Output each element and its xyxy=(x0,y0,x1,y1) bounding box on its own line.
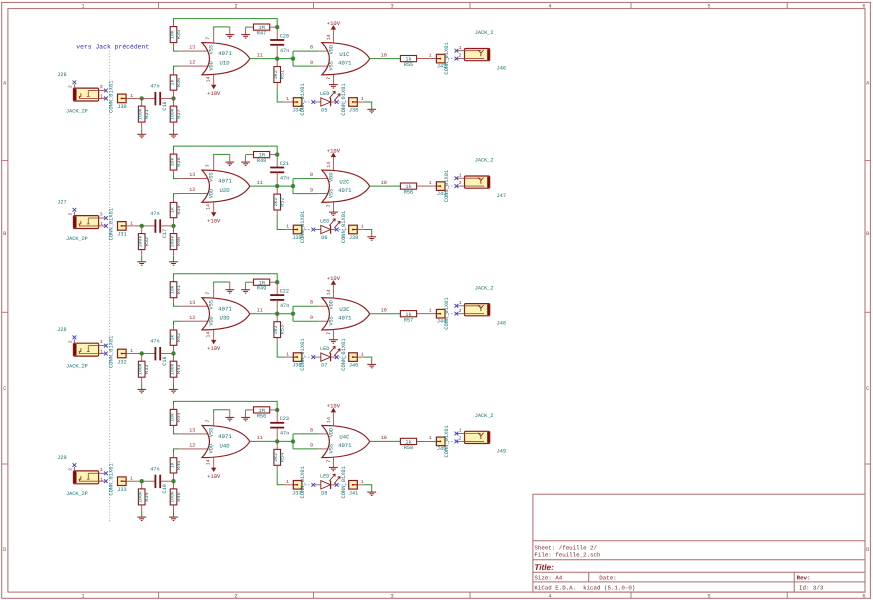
resistor R46 100k xyxy=(169,481,181,517)
svg-text:2: 2 xyxy=(67,468,73,471)
svg-text:D8: D8 xyxy=(321,490,327,496)
ground at gate D pin7 xyxy=(225,410,234,421)
ground after LED connector xyxy=(367,109,376,112)
svg-text:VSS: VSS xyxy=(208,173,214,182)
wire gate D output xyxy=(250,185,293,187)
svg-text:J29: J29 xyxy=(57,455,66,461)
svg-text:11: 11 xyxy=(257,180,263,186)
node output junction 1 xyxy=(275,184,279,188)
wire gate C output xyxy=(370,185,401,187)
svg-text:100k: 100k xyxy=(169,108,175,120)
LED D5 xyxy=(315,91,341,114)
svg-text:VSS: VSS xyxy=(208,300,214,309)
wire node input junction xyxy=(140,351,144,355)
svg-text:C21: C21 xyxy=(280,161,289,167)
svg-text:1: 1 xyxy=(130,93,133,99)
ground left of 1M resistor xyxy=(241,282,250,293)
svg-text:CONN_01X01: CONN_01X01 xyxy=(341,338,347,370)
ground after LED connector xyxy=(367,364,376,367)
svg-text:+10V: +10V xyxy=(207,345,221,352)
wire to LED branch xyxy=(277,87,283,102)
svg-text:11: 11 xyxy=(257,52,263,58)
svg-text:4: 4 xyxy=(548,593,551,599)
svg-text:5: 5 xyxy=(707,593,710,599)
svg-text:Title:: Title: xyxy=(534,563,554,572)
svg-text:47n: 47n xyxy=(280,175,289,181)
resistor R56 1k xyxy=(400,180,436,196)
svg-text:CONN_01X01: CONN_01X01 xyxy=(300,338,306,370)
svg-text:JACK_2: JACK_2 xyxy=(475,158,494,164)
svg-text:11: 11 xyxy=(257,308,263,314)
svg-text:1: 1 xyxy=(130,348,133,354)
svg-text:100k: 100k xyxy=(138,108,144,120)
capacitor C17 47n xyxy=(142,211,174,238)
svg-text:13: 13 xyxy=(189,45,195,51)
svg-text:LED: LED xyxy=(320,218,329,224)
svg-text:100k: 100k xyxy=(169,236,175,248)
svg-text:JACK_2: JACK_2 xyxy=(475,413,494,419)
svg-text:13: 13 xyxy=(189,172,195,178)
connector J36 (CONN_01X01) xyxy=(284,338,307,370)
svg-text:5: 5 xyxy=(707,4,710,10)
svg-text:10k: 10k xyxy=(169,413,175,422)
svg-text:14: 14 xyxy=(205,332,211,338)
svg-text:CONN_01X01: CONN_01X01 xyxy=(109,208,115,240)
svg-text:10: 10 xyxy=(381,308,387,314)
dashed link LED to connector xyxy=(335,100,339,104)
svg-text:J48: J48 xyxy=(497,321,506,327)
svg-text:VDD: VDD xyxy=(328,173,334,182)
svg-text:7: 7 xyxy=(205,164,211,167)
wire to pin 12 xyxy=(179,65,208,67)
resistor R44 10k xyxy=(169,405,181,434)
jack J47 (JACK_2) xyxy=(455,158,506,199)
ground at gate D pin7 xyxy=(225,27,234,38)
capacitor C20 47n xyxy=(270,27,289,58)
svg-text:R42: R42 xyxy=(176,333,182,342)
node output junction 2 xyxy=(291,184,295,188)
svg-text:R32: R32 xyxy=(144,237,150,246)
ground at gate C pin7 xyxy=(329,340,338,343)
op-gate U3C 4071 xyxy=(322,275,370,340)
svg-text:6: 6 xyxy=(862,593,865,599)
svg-text:4071: 4071 xyxy=(338,187,352,194)
resistor R50 1M xyxy=(250,407,277,420)
wire to pin 13 xyxy=(179,305,208,307)
svg-text:1k: 1k xyxy=(169,207,175,213)
wire branches to gate C inputs xyxy=(293,45,328,67)
connector J44 (CONN_01X01) xyxy=(436,297,454,329)
svg-text:10k: 10k xyxy=(169,158,175,167)
svg-text:JACK_2: JACK_2 xyxy=(475,30,494,36)
connector J37 (CONN_01X01) xyxy=(284,466,307,498)
resistor R42 1k xyxy=(169,321,181,353)
capacitor C22 47n xyxy=(270,282,289,314)
connector J42 (CONN_01X01) xyxy=(436,42,454,74)
svg-text:1: 1 xyxy=(100,221,103,227)
svg-text:8: 8 xyxy=(310,45,313,51)
connector J31 (CONN_01X01) xyxy=(109,208,142,240)
svg-text:13: 13 xyxy=(189,428,195,434)
svg-text:R40: R40 xyxy=(176,237,182,246)
resistor R58 1k xyxy=(400,435,436,451)
jack J49 (JACK_2) xyxy=(455,413,506,454)
connector J40 (CONN_01X01) xyxy=(341,338,372,370)
svg-text:2: 2 xyxy=(67,340,73,343)
dotted boundary line xyxy=(109,51,111,523)
svg-text:CONN_01X01: CONN_01X01 xyxy=(300,211,306,243)
svg-text:1: 1 xyxy=(81,593,84,599)
dashed link LED to connector xyxy=(335,228,339,232)
svg-text:VDD: VDD xyxy=(208,61,214,70)
resistor R55 1k xyxy=(400,52,436,68)
wire to pin 13 xyxy=(179,433,208,435)
ground at gate C pin7 xyxy=(329,467,338,470)
svg-text:8: 8 xyxy=(310,427,313,433)
resistor R36 1k xyxy=(169,66,181,98)
svg-text:J46: J46 xyxy=(497,66,506,72)
svg-text:12: 12 xyxy=(189,443,195,449)
svg-text:J38: J38 xyxy=(349,108,358,114)
svg-text:U3C: U3C xyxy=(339,306,350,313)
resistor R47 1M xyxy=(250,24,277,37)
svg-text:7: 7 xyxy=(326,77,332,80)
svg-text:VDD: VDD xyxy=(208,316,214,325)
ground under right 100k xyxy=(169,134,178,137)
svg-text:47n: 47n xyxy=(150,466,159,472)
resistor R40 100k xyxy=(169,226,181,262)
svg-text:C18: C18 xyxy=(162,356,168,365)
svg-text:4071: 4071 xyxy=(338,442,352,449)
svg-text:R54: R54 xyxy=(280,453,286,462)
svg-text:4071: 4071 xyxy=(218,305,232,312)
resistor R39 1k xyxy=(169,194,181,226)
svg-text:2k2: 2k2 xyxy=(273,198,279,207)
LED D7 xyxy=(315,346,341,369)
connector J38 (CONN_01X01) xyxy=(341,83,372,115)
capacitor C19 47n xyxy=(142,466,174,493)
ground under left 100k xyxy=(137,134,146,137)
svg-text:R48: R48 xyxy=(257,158,266,164)
svg-text:J47: J47 xyxy=(497,193,506,199)
svg-text:4071: 4071 xyxy=(338,59,352,66)
svg-text:JACK_2P: JACK_2P xyxy=(66,364,88,370)
op-gate U3D 4071 xyxy=(202,282,250,352)
wire to pin 12 xyxy=(179,320,208,322)
svg-text:2: 2 xyxy=(459,436,462,442)
svg-text:VSS: VSS xyxy=(208,45,214,54)
svg-text:100k: 100k xyxy=(169,363,175,375)
svg-text:R56: R56 xyxy=(404,190,413,196)
feedback wire (top) xyxy=(174,274,278,283)
svg-text:R46: R46 xyxy=(176,492,182,501)
resistor R48 1M xyxy=(250,152,277,165)
svg-text:R37: R37 xyxy=(176,109,182,118)
svg-text:R47: R47 xyxy=(257,31,266,37)
wire branches to gate C inputs xyxy=(293,427,328,449)
svg-text:12: 12 xyxy=(189,315,195,321)
svg-text:4: 4 xyxy=(548,4,551,10)
frame row letters xyxy=(3,81,870,554)
svg-text:VSS: VSS xyxy=(208,428,214,437)
svg-text:1: 1 xyxy=(429,52,432,58)
wire to LED branch xyxy=(277,342,283,357)
svg-text:J28: J28 xyxy=(57,327,66,333)
wire node input junction xyxy=(140,96,144,100)
svg-text:1: 1 xyxy=(100,94,103,100)
svg-text:1: 1 xyxy=(429,435,432,441)
node output junction 2 xyxy=(291,439,295,443)
svg-text:U4C: U4C xyxy=(339,434,350,441)
svg-text:J39: J39 xyxy=(349,235,358,241)
svg-text:U2D: U2D xyxy=(220,187,231,194)
svg-text:3: 3 xyxy=(100,212,103,218)
svg-text:47n: 47n xyxy=(150,339,159,345)
svg-text:2: 2 xyxy=(459,53,462,59)
capacitor C23 47n xyxy=(270,410,289,442)
resistor R49 1M xyxy=(250,279,277,292)
ground left of 1M resistor xyxy=(241,410,250,421)
svg-text:vers Jack précédent: vers Jack précédent xyxy=(76,43,149,50)
svg-text:C19: C19 xyxy=(162,484,168,493)
svg-text:U2C: U2C xyxy=(339,178,350,185)
svg-text:6: 6 xyxy=(862,4,865,10)
node output junction 2 xyxy=(291,312,295,316)
svg-text:VDD: VDD xyxy=(328,45,334,54)
svg-text:47n: 47n xyxy=(280,303,289,309)
svg-text:14: 14 xyxy=(326,34,332,40)
svg-text:CONN_01X01: CONN_01X01 xyxy=(341,466,347,498)
svg-text:R50: R50 xyxy=(257,413,266,419)
svg-text:+10V: +10V xyxy=(207,90,221,97)
ground after LED connector xyxy=(367,492,376,495)
node output junction 1 xyxy=(275,56,279,60)
svg-text:1: 1 xyxy=(130,220,133,226)
svg-text:1: 1 xyxy=(459,172,462,178)
dashed link LED to connector xyxy=(335,355,339,359)
resistor R38 10k xyxy=(169,150,181,179)
wire to LED branch xyxy=(277,215,283,230)
ground under left 100k xyxy=(137,262,146,265)
dashed link LED to connector xyxy=(335,483,339,487)
svg-text:File: feuille_2.sch: File: feuille_2.sch xyxy=(534,552,600,559)
svg-text:VSS: VSS xyxy=(328,444,334,453)
connector J45 (CONN_01X01) xyxy=(436,425,454,457)
svg-text:2: 2 xyxy=(234,593,237,599)
svg-text:12: 12 xyxy=(189,60,195,66)
svg-text:100k: 100k xyxy=(138,236,144,248)
ground under left 100k xyxy=(137,517,146,520)
resistor R37 100k xyxy=(169,98,181,134)
svg-text:1: 1 xyxy=(361,96,364,102)
connector J39 (CONN_01X01) xyxy=(341,211,372,243)
svg-text:+10V: +10V xyxy=(327,275,341,282)
wire to pin 12 xyxy=(179,193,208,195)
svg-text:D: D xyxy=(866,547,869,553)
wire gate D output xyxy=(250,313,293,315)
LED D8 xyxy=(315,474,341,497)
svg-text:2: 2 xyxy=(67,212,73,215)
wire gate C output xyxy=(370,313,401,315)
svg-text:100k: 100k xyxy=(169,491,175,503)
dashed link to LED xyxy=(302,484,311,486)
svg-text:C: C xyxy=(3,386,6,392)
svg-text:VSS: VSS xyxy=(328,189,334,198)
ground left of 1M resistor xyxy=(241,155,250,166)
svg-text:1: 1 xyxy=(459,428,462,434)
svg-text:VSS: VSS xyxy=(328,61,334,70)
svg-text:J32: J32 xyxy=(117,359,126,365)
dashed link to LED xyxy=(302,101,311,103)
svg-text:R58: R58 xyxy=(404,445,413,451)
svg-text:Date:: Date: xyxy=(599,575,616,582)
ground after LED connector xyxy=(367,237,376,240)
svg-text:J49: J49 xyxy=(497,448,506,454)
svg-text:R38: R38 xyxy=(176,157,182,166)
wire branches to gate C inputs xyxy=(293,172,328,194)
capacitor C21 47n xyxy=(270,155,289,187)
svg-text:R45: R45 xyxy=(176,461,182,470)
ground at gate C pin7 xyxy=(329,85,338,88)
svg-text:1: 1 xyxy=(81,4,84,10)
node output junction 1 xyxy=(275,312,279,316)
svg-text:R52: R52 xyxy=(280,197,286,206)
svg-text:12: 12 xyxy=(189,187,195,193)
title block texts xyxy=(534,545,823,592)
svg-text:U1D: U1D xyxy=(220,60,231,67)
svg-text:+10V: +10V xyxy=(207,218,221,225)
svg-text:10: 10 xyxy=(381,180,387,186)
node feedback junction xyxy=(275,280,279,284)
svg-text:8: 8 xyxy=(310,172,313,178)
wire to pin 13 xyxy=(179,50,208,52)
svg-text:JACK_2P: JACK_2P xyxy=(66,236,88,242)
svg-text:1: 1 xyxy=(429,180,432,186)
resistor R57 1k xyxy=(400,307,436,323)
feedback wire (top) xyxy=(174,401,278,410)
svg-text:8: 8 xyxy=(310,300,313,306)
svg-text:KiCad E.D.A. kicad (5.1.0-0): KiCad E.D.A. kicad (5.1.0-0) xyxy=(534,585,635,592)
ground under right 100k xyxy=(169,262,178,265)
ground at gate D pin7 xyxy=(225,282,234,293)
svg-text:3: 3 xyxy=(390,593,393,599)
connector J41 (CONN_01X01) xyxy=(341,466,372,498)
svg-text:VDD: VDD xyxy=(208,444,214,453)
svg-text:C20: C20 xyxy=(280,33,289,39)
svg-text:VDD: VDD xyxy=(208,189,214,198)
wire node after cap xyxy=(171,351,175,355)
resistor R45 1k xyxy=(169,449,181,481)
svg-text:CONN_01X01: CONN_01X01 xyxy=(341,83,347,115)
capacitor C18 47n xyxy=(142,339,174,366)
svg-text:9: 9 xyxy=(310,60,313,66)
node feedback junction xyxy=(275,408,279,412)
svg-text:100k: 100k xyxy=(138,363,144,375)
svg-text:2: 2 xyxy=(459,308,462,314)
svg-text:9: 9 xyxy=(310,187,313,193)
svg-text:R34: R34 xyxy=(144,492,150,501)
ground under left 100k xyxy=(137,389,146,392)
svg-text:VDD: VDD xyxy=(328,300,334,309)
svg-text:1: 1 xyxy=(286,351,289,357)
node feedback junction xyxy=(275,25,279,29)
svg-text:1: 1 xyxy=(286,96,289,102)
jack J26 xyxy=(57,72,108,114)
wire gate D output xyxy=(250,58,293,60)
svg-text:1: 1 xyxy=(361,351,364,357)
svg-text:3: 3 xyxy=(100,84,103,90)
resistor R41 10k xyxy=(169,278,181,307)
svg-text:9: 9 xyxy=(310,315,313,321)
svg-text:JACK_2: JACK_2 xyxy=(475,285,494,291)
svg-text:47n: 47n xyxy=(280,431,289,437)
wire gate D output xyxy=(250,440,293,442)
svg-text:R57: R57 xyxy=(404,317,413,323)
svg-text:4071: 4071 xyxy=(218,50,232,57)
svg-text:U1C: U1C xyxy=(339,51,350,58)
svg-text:CONN_01X01: CONN_01X01 xyxy=(341,211,347,243)
resistor R32 100k xyxy=(138,226,150,262)
svg-text:C: C xyxy=(866,386,869,392)
svg-text:7: 7 xyxy=(326,204,332,207)
svg-text:D6: D6 xyxy=(321,235,327,241)
svg-text:1: 1 xyxy=(459,300,462,306)
op-gate U1C 4071 xyxy=(322,20,370,85)
svg-text:2: 2 xyxy=(234,4,237,10)
resistor R33 100k xyxy=(138,354,150,390)
svg-text:Sheet: /feuille 2/: Sheet: /feuille 2/ xyxy=(534,545,597,552)
svg-text:R53: R53 xyxy=(280,325,286,334)
dashed link to LED xyxy=(302,356,311,358)
svg-text:1: 1 xyxy=(286,479,289,485)
svg-text:47n: 47n xyxy=(280,48,289,54)
svg-text:2k2: 2k2 xyxy=(273,325,279,334)
svg-text:CONN_01X01: CONN_01X01 xyxy=(109,336,115,368)
wire node after cap xyxy=(171,96,175,100)
svg-text:R36: R36 xyxy=(176,78,182,87)
svg-text:+10V: +10V xyxy=(327,147,341,154)
svg-text:CONN_01X01: CONN_01X01 xyxy=(300,83,306,115)
svg-text:C22: C22 xyxy=(280,288,289,294)
svg-text:10: 10 xyxy=(381,435,387,441)
resistor R53 2k2 xyxy=(273,314,286,343)
svg-text:3: 3 xyxy=(100,467,103,473)
svg-text:J30: J30 xyxy=(117,104,126,110)
frame ticks left/right xyxy=(2,161,871,464)
frame ticks top/bottom xyxy=(159,2,788,598)
wire gate C output xyxy=(370,58,401,60)
svg-text:LED: LED xyxy=(320,346,329,352)
LED D6 xyxy=(315,218,341,241)
svg-text:11: 11 xyxy=(257,435,263,441)
svg-text:13: 13 xyxy=(189,300,195,306)
wire node after cap xyxy=(171,479,175,483)
svg-text:VDD: VDD xyxy=(328,428,334,437)
jack J28 xyxy=(57,327,108,369)
resistor R34 100k xyxy=(138,481,150,517)
connector J35 (CONN_01X01) xyxy=(284,211,307,243)
svg-text:2k2: 2k2 xyxy=(273,453,279,462)
svg-text:2: 2 xyxy=(459,180,462,186)
svg-text:4071: 4071 xyxy=(218,433,232,440)
svg-text:1: 1 xyxy=(130,476,133,482)
op-gate U2C 4071 xyxy=(322,147,370,212)
svg-text:Id: 3/3: Id: 3/3 xyxy=(799,585,824,592)
svg-text:CONN_01X01: CONN_01X01 xyxy=(109,81,115,113)
wire branches to gate C inputs xyxy=(293,300,328,322)
svg-text:J31: J31 xyxy=(117,232,126,238)
svg-text:14: 14 xyxy=(326,162,332,168)
